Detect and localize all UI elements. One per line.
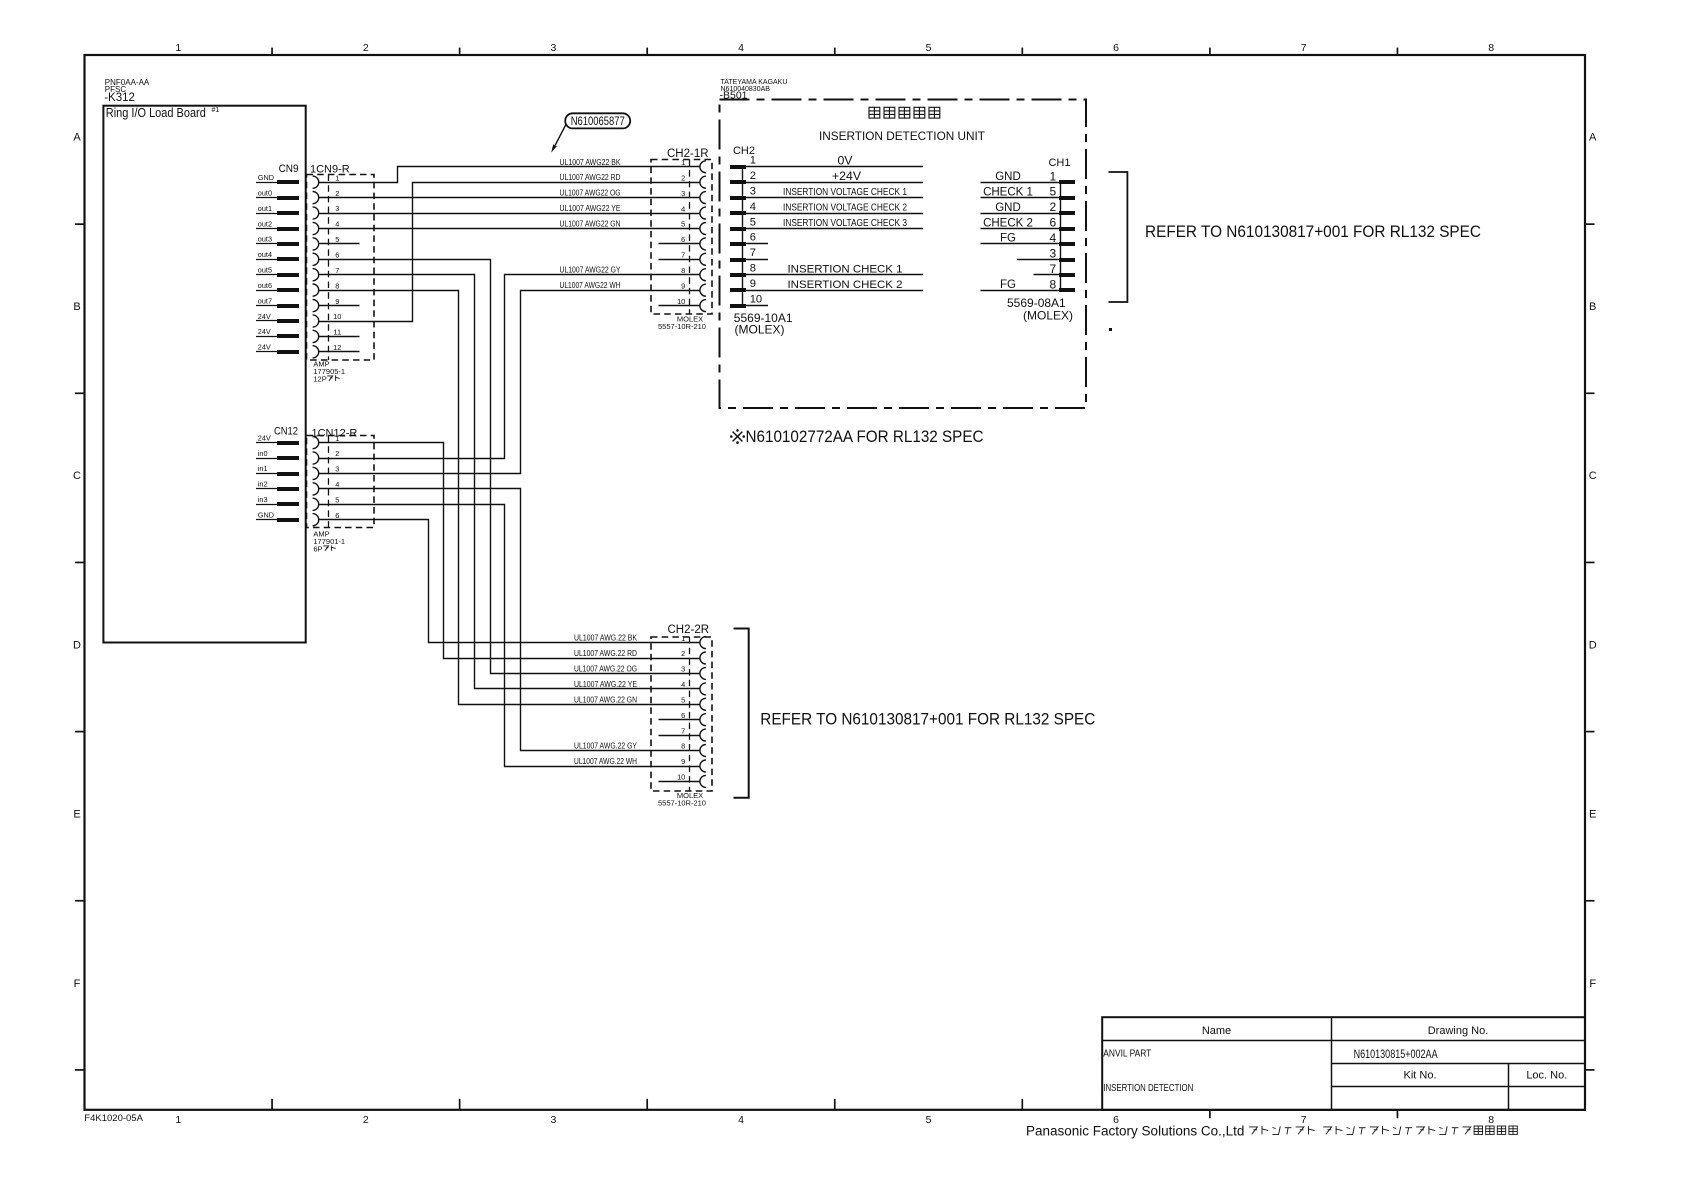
svg-text:E: E <box>73 809 80 821</box>
1CN9-R pin 10 contact arc <box>313 315 319 327</box>
wire RD: CN9-10 24V to CH2-1R-2 <box>319 183 700 322</box>
connector 1CN12-R dashed outline <box>307 436 375 528</box>
svg-text:D: D <box>73 640 81 652</box>
wire GN: CN9-8 out6 to CH2-2R-5 <box>319 291 700 705</box>
svg-text:GND: GND <box>258 173 274 182</box>
svg-text:7: 7 <box>681 726 685 735</box>
svg-text:4: 4 <box>681 680 685 689</box>
CH2-1R pin 8 contact arc <box>700 269 706 281</box>
svg-text:GND: GND <box>995 202 1021 214</box>
wire BK: CN12-6 GND to CH2-2R-1 <box>319 520 700 643</box>
frame zone ticks bottom <box>272 1099 1397 1119</box>
CH1 pin 7 stub wire <box>1034 274 1060 276</box>
svg-text:UL1007 AWG.22 GN: UL1007 AWG.22 GN <box>574 695 637 704</box>
svg-text:8: 8 <box>750 263 756 275</box>
svg-text:9: 9 <box>335 297 339 306</box>
svg-text:5: 5 <box>1049 185 1056 199</box>
svg-text:+24V: +24V <box>832 169 862 183</box>
svg-text:Panasonic Factory Solutions Co: Panasonic Factory Solutions Co.,Ltd <box>1026 1123 1244 1138</box>
svg-text:(MOLEX): (MOLEX) <box>735 323 785 337</box>
grid row letters left <box>73 132 81 990</box>
grid column numbers top <box>175 42 1494 54</box>
CH2 pin 7 contact bar <box>730 258 746 262</box>
svg-text:10: 10 <box>750 293 762 305</box>
svg-text:3: 3 <box>681 665 685 674</box>
wire stub CH2-2R-7 <box>659 735 700 737</box>
svg-text:6: 6 <box>335 511 339 520</box>
svg-text:GND: GND <box>995 171 1021 183</box>
svg-text:8: 8 <box>681 742 685 751</box>
svg-text:in0: in0 <box>258 449 268 458</box>
wire stub CH2-1R-7 <box>659 259 700 261</box>
CN12 pin 3 lead and name in1 <box>256 464 299 476</box>
1CN12-R pin 6 contact arc <box>313 514 319 526</box>
svg-text:C: C <box>73 470 81 482</box>
svg-text:UL1007 AWG.22 BK: UL1007 AWG.22 BK <box>574 634 638 643</box>
CN9 pin 12 lead and name 24V <box>256 343 299 354</box>
svg-text:5: 5 <box>926 42 932 54</box>
callout leader line <box>555 124 566 145</box>
title block column divider <box>1331 1017 1333 1110</box>
1CN9-R pin 5 contact arc <box>313 238 319 250</box>
svg-text:INSERTION VOLTAGE CHECK 2: INSERTION VOLTAGE CHECK 2 <box>783 203 907 214</box>
1CN9-R pin 11 contact arc <box>313 330 319 342</box>
svg-text:2: 2 <box>363 1114 369 1126</box>
CH2 pin 3 net wire <box>746 197 923 199</box>
wire YE: CN9-3 out1 to CH2-1R-4 <box>319 213 700 215</box>
svg-text:4: 4 <box>335 220 339 229</box>
svg-text:7: 7 <box>1301 1114 1307 1126</box>
wire GY: CN12-4 in2 to CH2-2R-8 <box>319 489 700 751</box>
svg-text:F: F <box>1589 978 1596 990</box>
wire WH: CN12-3 in1 to CH2-1R-9 <box>319 291 700 474</box>
CN9 pin 6 lead and name out4 <box>256 250 299 261</box>
svg-text:in1: in1 <box>258 464 268 473</box>
svg-text:A: A <box>1589 132 1597 144</box>
svg-text:CH2-1R: CH2-1R <box>667 148 709 160</box>
wire stub CH2-1R-6 <box>659 243 700 245</box>
CH2 pin 1 net wire <box>746 166 923 168</box>
svg-text:9: 9 <box>750 278 756 290</box>
svg-text:1CN9-R: 1CN9-R <box>310 163 350 175</box>
CH2-1R pin 5 contact arc <box>700 223 706 235</box>
svg-text:4: 4 <box>335 480 339 489</box>
svg-text:9: 9 <box>681 281 685 290</box>
svg-text:FG: FG <box>1000 233 1016 245</box>
CH2 pin 7 stub wire <box>746 259 768 261</box>
svg-text:Name: Name <box>1202 1025 1231 1037</box>
CH1 pin 6 wire <box>981 228 1060 230</box>
CH1 pin 1 contact bar <box>1059 180 1075 184</box>
svg-text:8: 8 <box>1049 277 1056 291</box>
svg-text:FG: FG <box>1000 279 1016 291</box>
svg-text:2: 2 <box>335 449 339 458</box>
wire RD: CN12-1 24V to CH2-2R-2 <box>319 443 700 659</box>
svg-text:N610130815+002AA: N610130815+002AA <box>1354 1047 1438 1061</box>
svg-text:1: 1 <box>1049 169 1056 183</box>
connector CH2-1R dashed outline <box>651 160 712 315</box>
svg-text:UL1007 AWG.22 GY: UL1007 AWG.22 GY <box>574 742 638 751</box>
svg-text:INSERTION VOLTAGE CHECK 1: INSERTION VOLTAGE CHECK 1 <box>783 187 907 198</box>
svg-text:CH2-2R: CH2-2R <box>668 624 710 636</box>
svg-text:7: 7 <box>1301 42 1307 54</box>
CH2 pin 8 net wire <box>746 274 923 276</box>
svg-text:Kit No.: Kit No. <box>1403 1070 1436 1082</box>
CN9 pin 5 lead and name out3 <box>256 235 299 246</box>
CH2 pin 2 net wire <box>746 182 923 184</box>
svg-text:F: F <box>74 978 81 990</box>
svg-text:ANVIL PART: ANVIL PART <box>1103 1048 1151 1059</box>
CH1 pin 6 contact bar <box>1059 227 1075 231</box>
svg-text:5: 5 <box>681 696 685 705</box>
CH1 pin 3 stub wire <box>1017 259 1059 261</box>
CH1 pin 1 wire <box>981 182 1060 184</box>
svg-text:N610065877: N610065877 <box>571 114 625 128</box>
svg-text:2: 2 <box>1049 200 1056 214</box>
svg-text:6: 6 <box>681 711 685 720</box>
frame zone ticks left <box>75 224 85 1070</box>
CH2-1R pin 6 contact arc <box>700 238 706 250</box>
svg-text:11: 11 <box>333 328 341 337</box>
svg-text:5557-10R-210: 5557-10R-210 <box>658 322 706 331</box>
CH2 pin 9 contact bar <box>730 288 746 292</box>
svg-text:1: 1 <box>335 173 339 182</box>
connector CH2-2R dashed outline <box>651 637 712 791</box>
svg-text:8: 8 <box>681 266 685 275</box>
svg-text:3: 3 <box>750 185 756 197</box>
CH2 contact strip vertical <box>742 167 744 306</box>
CH2-1R pin 4 contact arc <box>700 207 706 219</box>
CH1 pin 4 contact bar <box>1059 242 1075 246</box>
Ring I/O Load Board outline -K312 <box>103 106 305 643</box>
wire OG: CN9-2 out0 to CH2-1R-3 <box>319 197 700 199</box>
CH2 pin 6 contact bar <box>730 242 746 246</box>
wire stub CH2-2R-10 <box>659 781 700 783</box>
connector 1CN9-R inner dashed separator <box>328 175 330 361</box>
svg-text:in2: in2 <box>258 480 268 489</box>
svg-text:10: 10 <box>677 297 685 306</box>
CH2-2R pin 4 contact arc <box>700 683 706 695</box>
wire YE: CN9-7 out5 to CH2-2R-4 <box>319 275 700 689</box>
callout balloon N610065877 <box>565 113 630 128</box>
CN9 pin 10 lead and name 24V <box>256 312 299 323</box>
svg-text:3: 3 <box>681 189 685 198</box>
CN12 pin 2 lead and name in0 <box>256 449 299 460</box>
svg-text:1: 1 <box>750 155 756 167</box>
note N610102772AA FOR RL132 SPEC <box>730 428 984 446</box>
1CN9-R pin 7 contact arc <box>313 269 319 281</box>
svg-text:6: 6 <box>681 235 685 244</box>
svg-text:(MOLEX): (MOLEX) <box>1023 309 1073 323</box>
svg-text:24V: 24V <box>258 327 271 336</box>
svg-text:CN12: CN12 <box>274 426 298 438</box>
wire GY: CN12-2 in0 to CH2-1R-8 <box>319 275 700 459</box>
svg-text:out1: out1 <box>258 204 272 213</box>
CH2-2R pin 5 contact arc <box>700 698 706 710</box>
1CN9-R pin 1 contact arc <box>313 176 319 188</box>
CH2 pin 5 contact bar <box>730 227 746 231</box>
svg-text:-B501: -B501 <box>720 90 748 102</box>
connector 1CN9-R dashed outline <box>307 175 375 361</box>
svg-text:INSERTION VOLTAGE CHECK 3: INSERTION VOLTAGE CHECK 3 <box>783 218 907 229</box>
svg-text:7: 7 <box>750 247 756 259</box>
svg-text:9: 9 <box>681 757 685 766</box>
svg-text:3: 3 <box>335 204 339 213</box>
connector 1CN12-R inner dashed separator <box>328 436 330 528</box>
svg-text:UL1007 AWG22 RD: UL1007 AWG22 RD <box>560 173 621 182</box>
CH1 pin 5 contact bar <box>1059 196 1075 200</box>
reference bracket at CH1 <box>1109 172 1128 302</box>
svg-text:out7: out7 <box>258 296 272 305</box>
CH2-2R pin 2 contact arc <box>700 652 706 664</box>
1CN9-R pin 2 contact arc <box>313 192 319 204</box>
svg-text:2: 2 <box>750 170 756 182</box>
title block loc-no divider <box>1508 1064 1510 1110</box>
stray dot mark <box>1109 328 1112 331</box>
svg-text:10: 10 <box>333 312 341 321</box>
CH2-1R pin 9 contact arc <box>700 284 706 296</box>
svg-text:A: A <box>73 132 81 144</box>
wire OG: CN9-6 out4 to CH2-2R-3 <box>319 260 700 674</box>
svg-text:7: 7 <box>681 251 685 260</box>
CN9 pin 2 lead and name out0 <box>256 188 299 200</box>
svg-text:out3: out3 <box>258 235 272 244</box>
CH1 pin 7 contact bar <box>1059 273 1075 277</box>
svg-text:UL1007 AWG22 YE: UL1007 AWG22 YE <box>560 204 621 213</box>
svg-text:4: 4 <box>750 201 756 213</box>
CH1 pin 2 contact bar <box>1059 211 1075 215</box>
svg-text:REFER TO N610130817+001 FOR R: REFER TO N610130817+001 FOR RL132 SPEC <box>760 711 1095 729</box>
svg-text:N610102772AA FOR RL132 SPEC: N610102772AA FOR RL132 SPEC <box>746 428 984 446</box>
CH2-2R pin 7 contact arc <box>700 729 706 741</box>
CH2 pin 10 stub wire <box>746 305 768 307</box>
svg-text:4: 4 <box>738 1114 744 1126</box>
svg-text:UL1007 AWG.22 WH: UL1007 AWG.22 WH <box>574 757 637 766</box>
svg-text:CHECK 2: CHECK 2 <box>983 217 1033 229</box>
svg-text:INSERTION CHECK 1: INSERTION CHECK 1 <box>788 263 903 275</box>
wire BK: CN9-1 GND to CH2-1R-1 <box>319 167 700 183</box>
1CN9-R pin 8 contact arc <box>313 284 319 296</box>
svg-text:B: B <box>1589 301 1596 313</box>
1CN12-R pin 4 contact arc <box>313 483 319 495</box>
svg-text:CHECK 1: CHECK 1 <box>983 186 1033 198</box>
svg-text:5: 5 <box>750 216 756 228</box>
CH2-2R pin 1 contact arc <box>700 637 706 649</box>
CH2 pin 1 contact bar <box>730 165 746 169</box>
svg-text:1: 1 <box>681 634 685 643</box>
CH2-2R pin 3 contact arc <box>700 667 706 679</box>
svg-text:10: 10 <box>677 773 685 782</box>
svg-text:5: 5 <box>335 496 339 505</box>
CN12 pin 6 lead and name GND <box>256 511 299 523</box>
title block drawing-no row separator <box>1331 1063 1585 1065</box>
unit Japanese title (insertion detector) <box>869 107 940 118</box>
svg-text:8: 8 <box>1488 1114 1494 1126</box>
svg-text:2: 2 <box>681 173 685 182</box>
svg-text:out5: out5 <box>258 266 272 275</box>
svg-text:out4: out4 <box>258 250 272 259</box>
title block header separator <box>1102 1040 1585 1042</box>
svg-text:UL1007 AWG22 OG: UL1007 AWG22 OG <box>560 189 621 198</box>
svg-text:3: 3 <box>1049 246 1056 260</box>
svg-text:D: D <box>1589 640 1597 652</box>
CH2-2R pin 8 contact arc <box>700 745 706 757</box>
CH1 pin 8 contact bar <box>1059 288 1075 292</box>
wire stub CH2-2R-6 <box>659 719 700 721</box>
CH2-2R pin 9 contact arc <box>700 760 706 772</box>
CN9 pin 8 lead and name out6 <box>256 281 299 292</box>
CH1 contact strip vertical <box>1060 182 1062 290</box>
CN12 pin 5 lead and name in3 <box>256 495 299 506</box>
svg-text:INSERTION CHECK 2: INSERTION CHECK 2 <box>788 279 903 291</box>
svg-text:8: 8 <box>335 281 339 290</box>
CH2-1R pin 7 contact arc <box>700 253 706 265</box>
svg-text:6: 6 <box>335 251 339 260</box>
svg-text:-K312: -K312 <box>104 92 135 104</box>
1CN9-R pin 3 contact arc <box>313 207 319 219</box>
CN9 pin 7 lead and name out5 <box>256 266 299 278</box>
1CN12-R pin 2 contact arc <box>313 452 319 464</box>
CH2 pin 2 contact bar <box>730 180 746 184</box>
svg-text:3: 3 <box>335 465 339 474</box>
reference bracket at CH2-2R <box>734 629 749 798</box>
svg-text:B: B <box>73 301 80 313</box>
svg-text:3: 3 <box>550 1114 556 1126</box>
1CN12-R pin 5 contact arc <box>313 498 319 510</box>
svg-text:out0: out0 <box>258 188 272 197</box>
svg-text:UL1007 AWG22 WH: UL1007 AWG22 WH <box>560 281 621 290</box>
svg-text:1: 1 <box>681 158 685 167</box>
connector CH2-2R inner dashed separator <box>689 637 691 791</box>
svg-text:12: 12 <box>333 343 341 352</box>
1CN9-R pin 12 contact arc <box>313 346 319 358</box>
wire stub CN9-12 <box>319 351 360 353</box>
CH2 pin 3 contact bar <box>730 196 746 200</box>
svg-text:6: 6 <box>1113 42 1119 54</box>
svg-text:8: 8 <box>1488 42 1494 54</box>
svg-text:INSERTION DETECTION: INSERTION DETECTION <box>1103 1083 1193 1094</box>
svg-text:CH1: CH1 <box>1048 157 1070 169</box>
svg-text:UL1007 AWG22 GY: UL1007 AWG22 GY <box>560 266 622 275</box>
CN9 pin 11 lead and name 24V <box>256 327 299 338</box>
connector CH2-1R inner dashed separator <box>689 160 691 315</box>
svg-text:UL1007 AWG.22 RD: UL1007 AWG.22 RD <box>574 649 637 658</box>
CH2 pin 4 net wire <box>746 213 923 215</box>
svg-text:Drawing No.: Drawing No. <box>1428 1025 1489 1037</box>
CH2-1R pin 10 contact arc <box>700 300 706 312</box>
svg-text:6: 6 <box>1049 216 1056 230</box>
svg-text:3: 3 <box>550 42 556 54</box>
svg-text:4: 4 <box>738 42 744 54</box>
1CN12-R housing text 6P female <box>313 544 335 553</box>
CN12 pin 1 lead and name 24V <box>256 433 299 445</box>
CH1 pin 8 wire <box>981 290 1060 292</box>
1CN9-R housing text 12P female <box>313 374 339 383</box>
wire stub CN9-11 <box>319 336 360 338</box>
svg-text:24V: 24V <box>258 433 271 442</box>
grid column numbers bottom <box>175 1114 1494 1126</box>
CH2-1R pin 2 contact arc <box>700 176 706 188</box>
CH2 pin 6 stub wire <box>746 243 768 245</box>
CH2 pin 10 contact bar <box>730 304 746 308</box>
1CN9-R pin 4 contact arc <box>313 222 319 234</box>
CN9 pin 1 lead and name GND <box>256 173 299 184</box>
CH2-2R pin 10 contact arc <box>700 775 706 787</box>
svg-text:Ring I/O Load Board: Ring I/O Load Board <box>106 105 206 120</box>
svg-text:1: 1 <box>335 434 339 443</box>
svg-text:REFER TO N610130817+001 FOR R: REFER TO N610130817+001 FOR RL132 SPEC <box>1145 223 1481 241</box>
CH2 pin 8 contact bar <box>730 273 746 277</box>
svg-text:in3: in3 <box>258 495 268 504</box>
grid row letters right <box>1589 132 1597 990</box>
svg-text:out2: out2 <box>258 219 272 228</box>
svg-text:out6: out6 <box>258 281 272 290</box>
svg-text:2: 2 <box>335 189 339 198</box>
CH2-1R pin 3 contact arc <box>700 192 706 204</box>
svg-text:UL1007 AWG22 GN: UL1007 AWG22 GN <box>560 220 621 229</box>
svg-text:0V: 0V <box>837 153 853 167</box>
svg-text:UL1007 AWG.22 YE: UL1007 AWG.22 YE <box>574 680 637 689</box>
1CN9-R pin 9 contact arc <box>313 300 319 312</box>
frame zone ticks top <box>272 48 1397 55</box>
frame zone ticks right <box>1585 224 1595 1070</box>
svg-text:INSERTION DETECTION UNIT: INSERTION DETECTION UNIT <box>819 129 985 143</box>
CH1 pin 4 wire <box>981 243 1060 245</box>
svg-text:5: 5 <box>681 220 685 229</box>
title block kit-no row separator <box>1331 1086 1585 1088</box>
CN9 pin 3 lead and name out1 <box>256 204 299 215</box>
svg-text:#1: #1 <box>212 107 220 114</box>
CN9 pin 9 lead and name out7 <box>256 296 299 308</box>
svg-text:24V: 24V <box>258 312 271 321</box>
svg-text:5: 5 <box>335 235 339 244</box>
drawing frame border <box>85 55 1586 1110</box>
svg-text:5: 5 <box>926 1114 932 1126</box>
svg-text:12P: 12P <box>313 374 326 383</box>
insertion detection unit dashed enclosure -B501 <box>720 100 1087 409</box>
svg-text:1: 1 <box>175 1114 181 1126</box>
svg-text:2: 2 <box>681 649 685 658</box>
svg-text:C: C <box>1589 470 1597 482</box>
CH2 pin 5 net wire <box>746 228 923 230</box>
svg-text:2: 2 <box>363 42 369 54</box>
CN9 pin 4 lead and name out2 <box>256 219 299 231</box>
wire WH: CN12-5 in3 to CH2-2R-9 <box>319 505 700 767</box>
svg-text:CN9: CN9 <box>279 163 299 175</box>
callout arrowhead <box>551 144 557 152</box>
svg-text:5557-10R-210: 5557-10R-210 <box>658 799 706 808</box>
title block outline <box>1102 1017 1585 1110</box>
1CN12-R pin 3 contact arc <box>313 467 319 479</box>
wire stub CN9-5 <box>319 243 360 245</box>
1CN12-R pin 1 contact arc <box>313 437 319 449</box>
CH2 pin 4 contact bar <box>730 211 746 215</box>
svg-text:4: 4 <box>681 204 685 213</box>
svg-text:F4K1020-05A: F4K1020-05A <box>84 1113 143 1124</box>
svg-text:Loc. No.: Loc. No. <box>1526 1070 1567 1082</box>
wire stub CH2-1R-10 <box>659 305 700 307</box>
svg-text:UL1007 AWG.22 OG: UL1007 AWG.22 OG <box>574 664 637 673</box>
CH2-1R pin 1 contact arc <box>700 161 706 173</box>
CH1 pin 5 wire <box>981 197 1060 199</box>
CH1 pin 2 wire <box>981 213 1060 215</box>
CH2-2R pin 6 contact arc <box>700 714 706 726</box>
svg-text:6: 6 <box>750 232 756 244</box>
svg-text:UL1007 AWG22 BK: UL1007 AWG22 BK <box>560 158 622 167</box>
1CN9-R pin 6 contact arc <box>313 253 319 265</box>
svg-text:E: E <box>1589 809 1596 821</box>
wire stub CN9-9 <box>319 305 360 307</box>
